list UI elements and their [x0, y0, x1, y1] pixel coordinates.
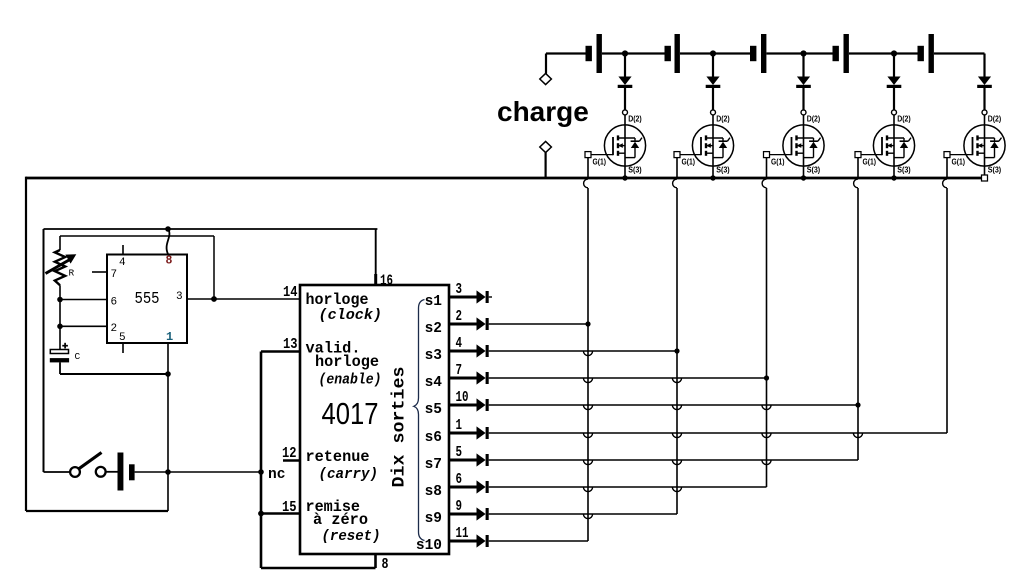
svg-text:9: 9 — [456, 499, 463, 515]
svg-text:s8: s8 — [425, 484, 442, 500]
svg-text:D(2): D(2) — [716, 114, 730, 124]
svg-text:5: 5 — [456, 445, 463, 461]
svg-text:3: 3 — [176, 291, 183, 303]
svg-text:16: 16 — [380, 274, 393, 290]
svg-text:s6: s6 — [425, 430, 442, 446]
svg-text:à zéro: à zéro — [313, 511, 368, 529]
svg-text:S(3): S(3) — [716, 165, 730, 175]
svg-text:4017: 4017 — [322, 396, 379, 431]
svg-text:2: 2 — [456, 309, 463, 325]
svg-text:6: 6 — [456, 472, 463, 488]
svg-text:s9: s9 — [425, 511, 442, 527]
svg-text:8: 8 — [166, 255, 173, 268]
svg-text:Dix sorties: Dix sorties — [390, 367, 410, 488]
svg-text:D(2): D(2) — [988, 114, 1002, 124]
svg-text:R: R — [69, 268, 75, 279]
svg-text:s1: s1 — [425, 294, 443, 310]
svg-text:7: 7 — [111, 269, 118, 281]
svg-text:5: 5 — [119, 332, 126, 344]
svg-text:G(1): G(1) — [952, 157, 966, 167]
svg-text:4: 4 — [456, 336, 463, 352]
svg-text:s5: s5 — [425, 402, 442, 418]
svg-text:(enable): (enable) — [319, 372, 382, 389]
svg-text:G(1): G(1) — [771, 157, 785, 167]
svg-text:14: 14 — [283, 285, 298, 301]
svg-text:S(3): S(3) — [897, 165, 911, 175]
svg-text:7: 7 — [456, 363, 463, 379]
svg-text:C: C — [75, 351, 81, 362]
svg-text:6: 6 — [111, 297, 118, 309]
svg-text:nc: nc — [268, 466, 286, 483]
svg-text:3: 3 — [456, 282, 463, 298]
svg-text:s4: s4 — [425, 375, 443, 391]
svg-text:10: 10 — [456, 390, 469, 406]
svg-text:8: 8 — [382, 557, 389, 573]
svg-text:horloge: horloge — [315, 353, 379, 371]
svg-text:4: 4 — [119, 257, 126, 269]
svg-text:S(3): S(3) — [807, 165, 821, 175]
svg-text:S(3): S(3) — [988, 165, 1002, 175]
svg-text:1: 1 — [456, 418, 463, 434]
svg-text:s2: s2 — [425, 321, 442, 337]
svg-text:(clock): (clock) — [319, 307, 383, 324]
svg-text:D(2): D(2) — [897, 114, 911, 124]
svg-text:1: 1 — [166, 330, 173, 344]
svg-text:D(2): D(2) — [807, 114, 821, 124]
svg-text:G(1): G(1) — [593, 157, 607, 167]
svg-text:S(3): S(3) — [628, 165, 642, 175]
svg-text:s3: s3 — [425, 348, 442, 364]
svg-text:11: 11 — [456, 526, 469, 542]
svg-text:(carry): (carry) — [319, 466, 379, 483]
svg-text:retenue: retenue — [306, 448, 370, 466]
svg-text:2: 2 — [111, 323, 118, 335]
svg-text:G(1): G(1) — [863, 157, 877, 167]
svg-text:s10: s10 — [416, 538, 442, 554]
svg-text:s7: s7 — [425, 457, 442, 473]
svg-text:G(1): G(1) — [682, 157, 696, 167]
svg-text:D(2): D(2) — [628, 114, 642, 124]
svg-text:555: 555 — [135, 290, 160, 309]
svg-text:charge: charge — [497, 96, 589, 127]
svg-text:(reset): (reset) — [322, 528, 381, 545]
